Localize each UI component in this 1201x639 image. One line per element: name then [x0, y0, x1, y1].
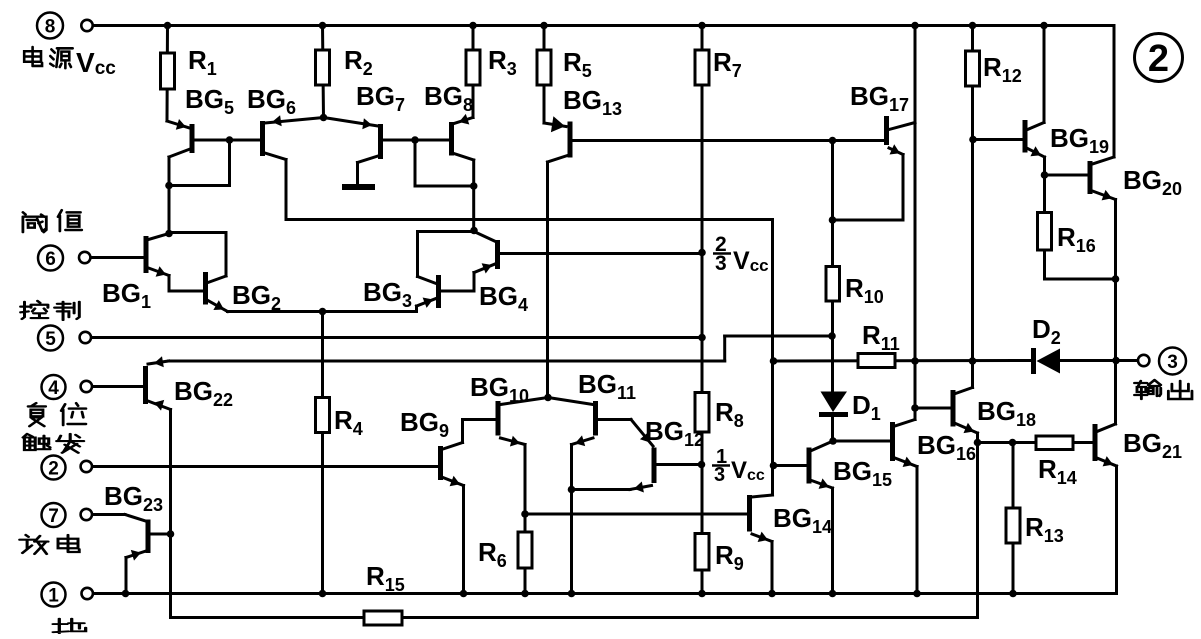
svg-text:3: 3 [1167, 352, 1178, 373]
svg-text:5: 5 [45, 329, 56, 350]
svg-text:2: 2 [48, 458, 59, 479]
svg-text:1: 1 [48, 585, 59, 606]
svg-text:3: 3 [714, 464, 725, 486]
svg-text:6: 6 [45, 249, 56, 270]
svg-text:2: 2 [1148, 38, 1169, 80]
svg-text:8: 8 [45, 16, 56, 37]
svg-text:4: 4 [48, 378, 59, 399]
svg-text:3: 3 [715, 252, 727, 275]
svg-text:7: 7 [48, 506, 59, 527]
